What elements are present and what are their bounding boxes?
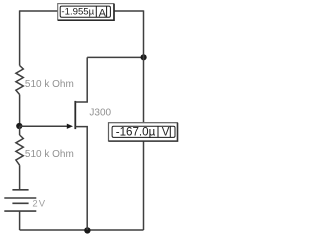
wire: right rail lower (voltmeter bottom to bottom rail)	[143, 141, 145, 230]
wire: left rail between gate node and resistor R2	[19, 126, 21, 135]
ammeter U1 inner frame	[60, 6, 110, 17]
battery V1 plate 3 (short)	[12, 202, 28, 204]
voltmeter U2 unit cell dividers	[158, 126, 170, 137]
transistor J300 channel bar	[74, 101, 76, 129]
transistor J300 source lead	[75, 127, 87, 230]
voltmeter U2 unit V	[162, 126, 170, 138]
battery V1 plate 1 (short, top)	[12, 189, 28, 191]
svg-text:J300: J300	[89, 108, 111, 119]
ammeter U1 value -1.955µ	[61, 7, 94, 18]
node: gate junction dot on left rail	[16, 123, 22, 129]
svg-text:V: V	[162, 126, 170, 138]
resistor R2 (510 k Ohm) zigzag	[16, 135, 23, 165]
resistor R1 (510 k Ohm) zigzag	[16, 66, 23, 95]
wire: bottom rail	[20, 229, 144, 231]
transistor J300 gate arrow	[67, 124, 73, 129]
wire: ammeter right to right rail corner	[114, 10, 143, 12]
svg-text:-1.955µ: -1.955µ	[61, 7, 94, 18]
wire: left rail between R2 and battery	[19, 165, 21, 190]
wire: left rail top (corner to resistor R1)	[19, 10, 21, 65]
voltmeter U2 outer box	[109, 123, 178, 142]
label: R1 value 510 k Ohm	[25, 79, 74, 90]
wire: gate lead from left rail to J300	[20, 125, 68, 127]
transistor J300 drain lead	[75, 57, 87, 102]
label: transistor designator J300	[89, 108, 111, 119]
wire: battery bottom lead to bottom rail	[19, 211, 21, 230]
wire: drain horizontal to right rail	[87, 56, 143, 58]
wire: right rail upper (corner to voltmeter top)	[143, 10, 145, 122]
battery V1 plate 4 (long, bottom)	[4, 210, 36, 212]
wire: top left from left rail to ammeter	[20, 10, 58, 12]
svg-text:A: A	[99, 7, 107, 19]
voltmeter U2 value -167.0µ	[116, 126, 156, 139]
ammeter U1 unit cell dividers	[96, 6, 106, 17]
battery V1 plate 2 (long)	[4, 197, 36, 199]
svg-text:510 k Ohm: 510 k Ohm	[25, 149, 74, 160]
ammeter U1 outer box	[58, 4, 114, 21]
wire: left rail between R1 and gate node	[19, 95, 21, 127]
node: source junction dot on bottom rail	[84, 227, 90, 233]
ammeter U1 unit A	[99, 7, 107, 19]
voltmeter U2 inner frame	[112, 126, 175, 137]
label: battery value 2 V	[32, 199, 45, 210]
svg-text:510 k Ohm: 510 k Ohm	[25, 79, 74, 90]
label: R2 value 510 k Ohm	[25, 149, 74, 160]
node: drain junction dot on right rail	[141, 54, 147, 60]
svg-text:-167.0µ: -167.0µ	[116, 126, 156, 139]
svg-text:2 V: 2 V	[32, 199, 45, 210]
